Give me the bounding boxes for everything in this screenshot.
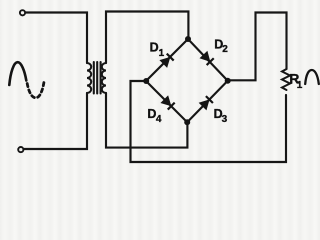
svg-text:2: 2 [222, 44, 228, 55]
svg-text:4: 4 [156, 114, 162, 125]
svg-text:1: 1 [297, 80, 303, 91]
svg-text:1: 1 [159, 48, 165, 59]
svg-text:D: D [150, 41, 159, 55]
svg-text:3: 3 [222, 114, 228, 125]
